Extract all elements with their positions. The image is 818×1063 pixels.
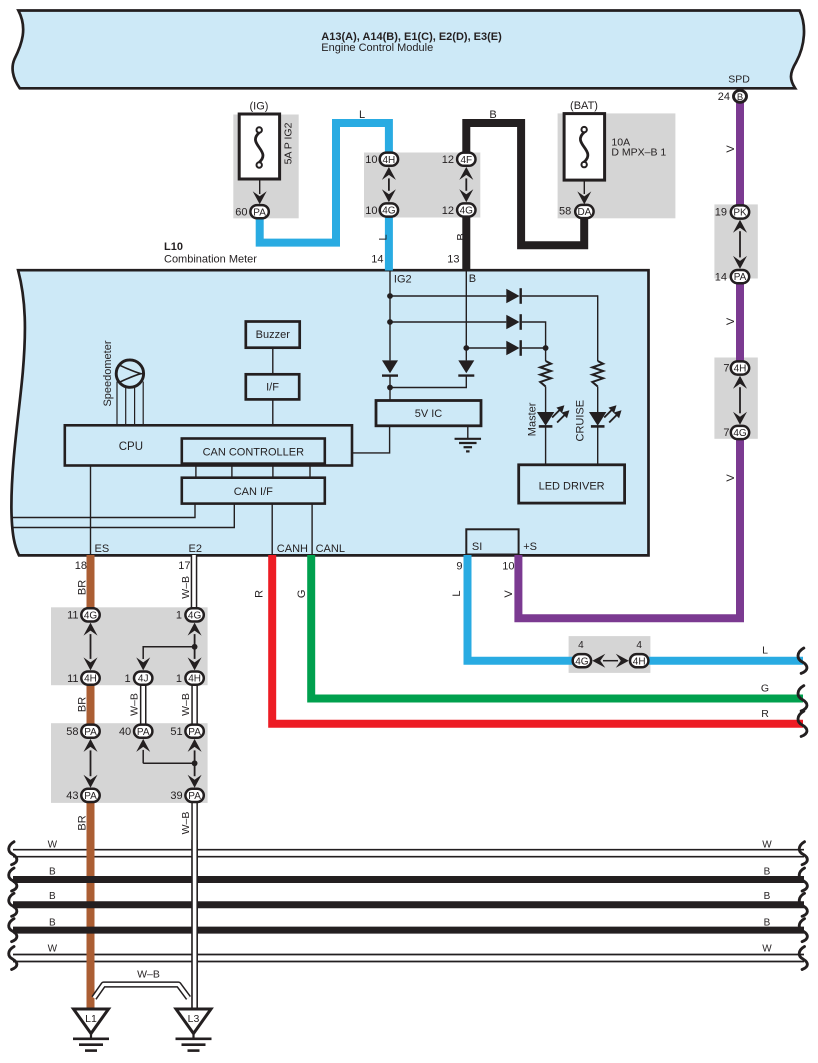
wire D4 output [389,376,391,401]
wire B band 3 [13,927,804,934]
ground L3 [176,1009,212,1051]
svg-text:V: V [725,317,737,325]
label G rotated [296,590,308,599]
svg-text:L: L [762,645,768,657]
wire BR pin18 to 4G [87,555,95,609]
label 11 a [67,610,78,622]
junction dot 51-39 branch [192,760,198,766]
connector PA pin58 [81,725,99,738]
svg-text:4G: 4G [84,611,98,622]
svg-text:L: L [359,109,365,121]
connector 4H inline [630,654,648,667]
svg-text:I/F: I/F [266,381,279,393]
arrows 11 4G-4H [84,623,98,671]
connector 4H pin11 [81,672,99,685]
svg-text:PA: PA [253,207,266,218]
arrows 10 4H-4G [382,167,396,202]
wire R CANH [272,555,803,724]
resistor CRUISE [592,361,603,387]
connector PA pin40 [134,725,152,738]
svg-text:L1: L1 [85,1013,97,1025]
break mark L right [798,648,807,673]
svg-text:17: 17 [178,560,190,572]
label 40 pin [119,726,131,738]
svg-text:9: 9 [456,560,462,572]
svg-text:12: 12 [442,205,454,217]
svg-text:R: R [254,590,266,598]
label 9 pin [456,560,462,572]
wire B internal vertical [465,271,467,360]
label Speedometer [102,340,114,406]
svg-text:CRUISE: CRUISE [575,400,587,442]
label 7 b [723,427,729,439]
svg-text:4G: 4G [575,656,589,667]
label V rotated 2 [725,317,737,325]
connector 4G pin1 [185,608,203,621]
svg-text:W: W [48,944,58,955]
svg-text:4H: 4H [633,656,646,667]
label L right end [762,645,768,657]
svg-text:B: B [469,273,476,285]
speedometer symbol [116,360,144,387]
label B band2 right [764,891,771,902]
svg-text:B: B [737,92,743,103]
svg-text:SPD: SPD [728,74,750,86]
svg-text:4F: 4F [460,155,472,166]
label BR rotated 2 [77,697,89,712]
wire L pin14 stub [385,217,393,271]
wire CAN I/F to left edge 2 [12,504,234,528]
svg-text:11: 11 [67,673,78,685]
arrow 40PA up [136,739,150,763]
connector PA pin14 [731,270,749,283]
combination meter label L10 [164,241,257,266]
connector 4J pin1 [134,672,152,685]
svg-text:W–B: W–B [129,693,141,716]
label +S [523,541,537,553]
label 4 right [636,640,642,651]
ECM module band A13/A14/E1/E2/E3 [13,11,804,89]
label 12 a [442,154,454,166]
label 4 left [578,640,584,651]
wire B pin13 stub [462,217,470,271]
svg-text:1: 1 [176,610,182,622]
arrows 12 4F-4G [459,167,473,202]
LED driver box [519,465,625,503]
label 10 a [365,154,377,166]
svg-text:PA: PA [188,791,201,802]
svg-text:L10: L10 [164,241,183,253]
connector 4G pin10 [380,203,398,216]
svg-text:5A P IG2: 5A P IG2 [283,122,295,164]
svg-text:Master: Master [527,402,539,436]
svg-text:51: 51 [170,726,182,738]
wire V 4G down to +S [518,440,740,619]
label 14 pin [371,253,383,265]
arrows 19PK-14PA [733,220,747,269]
label V rotated 4 [503,590,515,598]
label B band1 right [764,866,771,877]
diode D3 row3 [506,340,520,356]
label B band3 left [49,917,56,928]
wire CRUISE LED to LED driver [597,428,599,465]
svg-text:W: W [762,944,772,955]
diode D5 down (B to 5V) [458,360,474,375]
break B band2 [9,893,808,916]
label SPD [728,74,750,86]
wire Master LED to LED driver [545,428,547,465]
svg-text:B: B [456,233,468,240]
svg-text:SI: SI [472,541,482,553]
label BR rotated 3 [77,815,89,830]
connector PA pin43 [81,789,99,802]
node B label [469,273,476,285]
wire diode1 to CRUISE branch [522,295,598,361]
fuse block background (IG) [233,115,298,219]
label L rotated SI [451,590,463,596]
wires CAN controller to CAN I/F [196,464,310,478]
svg-text:G: G [296,590,308,599]
junction dot IG2 branch 1 [387,293,393,299]
label 13 pin [447,253,459,265]
svg-text:Engine Control Module: Engine Control Module [321,42,433,54]
wire diode2 to master node [522,322,546,348]
svg-text:10: 10 [365,154,377,166]
svg-text:PA: PA [84,791,97,802]
buzzer box [246,322,300,348]
wire W-B 4H to 51PA [191,685,198,725]
svg-text:W: W [48,839,58,850]
connector PA pin39 [185,789,203,802]
connector 4G pin12 [457,203,475,216]
svg-text:4G: 4G [188,611,202,622]
wire D5 output to D4 node [390,376,466,388]
label 58 b [66,726,78,738]
connector 4F pin12 [457,153,475,166]
svg-text:40: 40 [119,726,131,738]
wire diode row 2 [390,321,506,323]
wire B band 2 [13,901,804,908]
junction dot IG2 branch 2 [387,319,393,325]
connector 4H pin7 [731,361,749,374]
svg-text:+S: +S [523,541,537,553]
wire diode row 1 [390,295,506,297]
svg-text:14: 14 [371,253,383,265]
connector 4G inline [573,654,591,667]
svg-text:LED DRIVER: LED DRIVER [539,481,605,493]
svg-text:BR: BR [77,815,89,830]
svg-text:18: 18 [75,560,87,572]
fuse BAT (10A D MPX-B 1) [564,114,605,181]
svg-text:PA: PA [734,272,747,283]
label 1 a [176,610,182,622]
label ES [95,543,110,555]
wire buzzer to I/F [272,348,274,375]
label B band1 left [49,866,56,877]
label (IG) [250,101,269,113]
label R right end [761,708,769,720]
svg-text:4H: 4H [188,674,201,685]
svg-text:B: B [49,866,56,877]
label W-B rotated 2 [180,693,192,716]
svg-text:(IG): (IG) [250,101,269,113]
label R rotated [254,590,266,598]
connector 4G pin11 [81,608,99,621]
label Master [527,402,539,436]
svg-text:W–B: W–B [180,812,192,835]
svg-text:12: 12 [442,154,454,166]
label L rotated pin14 [377,234,389,240]
svg-text:R: R [761,708,769,720]
connector block 10/12 background [364,153,480,218]
label W band2 left [48,944,58,955]
label 24 pin [718,91,730,103]
svg-text:58: 58 [559,205,571,217]
svg-text:PA: PA [188,727,201,738]
svg-text:14: 14 [715,271,727,283]
label 1 c [176,673,182,685]
break mark G right [798,686,807,711]
label W band1 right [762,839,772,850]
CAN controller box [182,439,325,464]
diode D2 row2 [506,314,520,330]
break B band1 [9,868,808,891]
svg-text:10: 10 [365,205,377,217]
wire branch to 4J [136,647,194,671]
label 5A P IG2 [283,122,295,164]
node IG2 label [394,274,412,286]
label CANL [316,543,345,555]
wire W-B bridge [94,985,189,999]
wire W-B over bands [191,840,198,1010]
ground inside meter (5V IC) [455,426,482,452]
connector PK pin19 [731,205,749,218]
svg-text:24: 24 [718,91,730,103]
label W band2 right [762,944,772,955]
break W band1 [9,842,808,865]
svg-text:D MPX–B 1: D MPX–B 1 [611,147,666,159]
svg-text:W–B: W–B [180,576,192,599]
svg-text:W: W [762,839,772,850]
svg-text:5V IC: 5V IC [415,408,443,420]
svg-text:V: V [725,145,737,153]
connector 4H pin1 [185,672,203,685]
fuse IG (5A P IG2) [239,114,279,179]
svg-text:4G: 4G [382,206,396,217]
svg-text:CPU: CPU [119,441,143,453]
connector 4G pin7 [731,426,749,439]
svg-text:V: V [725,474,737,482]
wire CANL internal [311,504,313,555]
resistor Master [540,361,551,387]
junction dot B branch [463,345,469,351]
wire IG2 internal vertical [389,271,391,360]
svg-text:BR: BR [77,580,89,595]
svg-text:CANH: CANH [277,543,308,555]
wire B band 1 [13,876,804,883]
wires speedometer to CPU [117,382,143,426]
svg-text:13: 13 [447,253,459,265]
svg-text:(BAT): (BAT) [570,100,598,112]
connector block 19PK/14PA background [714,204,757,278]
svg-text:B: B [489,109,496,121]
label W-B rotated 1 [180,576,192,599]
svg-text:CAN CONTROLLER: CAN CONTROLLER [203,446,305,458]
label 19 pin [715,207,727,219]
label W-B rotated 4 [180,812,192,835]
arrow IG fuse output [253,179,267,204]
label 58 pin [559,205,571,217]
connector B pin24 (SPD) [734,90,747,103]
label B top [489,109,496,121]
wire W band 1 [13,850,804,857]
wire L from IG fuse to 4H [260,123,389,243]
svg-text:1: 1 [176,673,182,685]
wire W-B pin17 to 4G [191,555,198,609]
arrows 4G-4H horizontal [592,654,629,668]
wire BR 4H to PA [87,685,95,725]
svg-text:B: B [764,891,771,902]
svg-text:E2: E2 [189,543,202,555]
svg-text:4: 4 [578,640,584,651]
wire BR over bands [87,840,95,1010]
wire W-B 39PA to ground [191,802,198,1010]
svg-text:19: 19 [715,207,727,219]
svg-text:ES: ES [95,543,110,555]
wire master node to resistor [545,348,547,361]
wire L from SI pin9 [468,555,573,661]
label W band1 left [48,839,58,850]
wire B from BAT fuse to 4F [466,123,584,245]
svg-text:43: 43 [66,790,78,802]
label G right end [761,682,769,694]
wire W band 2 [13,955,804,962]
wire 5V IC to CPU [352,426,390,453]
wire ES internal [90,466,92,556]
label V rotated 1 [725,145,737,153]
label CANH [277,543,308,555]
diode D4 down (IG2 to 5V) [382,360,398,375]
arrows 1 4G-4H [188,623,202,671]
wire G CANL [311,555,803,699]
label V rotated 3 [725,474,737,482]
wire CAN I/F to left edge 1 [12,504,195,518]
ECM title text [321,31,502,54]
svg-text:W–B: W–B [180,693,192,716]
label 18 pin [75,560,87,572]
CPU box [65,425,352,465]
junction dot master node [543,345,549,351]
svg-text:10: 10 [502,560,514,572]
svg-text:4J: 4J [138,674,149,685]
label 60 pin [235,207,247,219]
arrow BAT fuse output [577,180,591,204]
label (BAT) [570,100,598,112]
connector 4H pin10 [380,153,398,166]
label E2 [189,543,202,555]
junction dot 4G-4H branch [192,644,198,650]
5V IC box [376,401,481,426]
svg-text:58: 58 [66,726,78,738]
label 1 b [124,673,130,685]
svg-text:CANL: CANL [316,543,345,555]
junction dot 5V feed [387,385,393,391]
svg-text:7: 7 [723,363,729,375]
svg-text:V: V [503,590,515,598]
connector block 11/1 4G-4H background [51,607,208,685]
svg-text:W–B: W–B [137,969,160,981]
label 14 pin right [715,271,727,283]
label BR rotated 1 [77,580,89,595]
connector block 4G/4H inline background [569,636,651,673]
svg-text:PA: PA [137,727,150,738]
connector DA (BAT fuse, pin58) [575,205,593,218]
wire V SPD drop [736,103,744,206]
arrows 58PA-43PA [84,739,98,788]
connector PA (IG fuse, pin60) [250,205,268,218]
wire diode row 3 [466,347,506,349]
wire diode3 to master node [522,347,546,349]
svg-text:1: 1 [124,673,130,685]
connector block 7 4H/4G background [714,358,757,439]
label 7 a [723,363,729,375]
svg-text:Speedometer: Speedometer [102,340,114,406]
ground L1 [73,1009,109,1051]
svg-text:B: B [49,891,56,902]
wire I/F to CAN controller [272,399,274,438]
connector PA pin51 [185,725,203,738]
SI box [466,529,518,554]
label B rotated pin13 [456,233,468,240]
wire resistor to CRUISE LED [597,387,599,413]
svg-text:L: L [451,590,463,596]
svg-text:7: 7 [723,427,729,439]
CPU label [119,441,143,453]
svg-text:B: B [764,917,771,928]
svg-text:PK: PK [733,208,747,219]
connector block PA background [51,723,208,803]
svg-text:L: L [377,234,389,240]
svg-text:Combination Meter: Combination Meter [164,254,257,266]
svg-text:4G: 4G [460,206,474,217]
label 12 b [442,205,454,217]
svg-text:CAN I/F: CAN I/F [234,486,273,498]
label B band2 left [49,891,56,902]
label 43 pin [66,790,78,802]
label 11 b [67,673,78,685]
I/F box [246,374,299,399]
label 39 pin [170,790,182,802]
svg-text:B: B [49,917,56,928]
label W-B rotated 3 [129,693,141,716]
break mark R right [798,711,807,736]
label L top [359,109,365,121]
LED CRUISE [589,405,622,426]
label 17 pin [178,560,190,572]
label CRUISE [575,400,587,442]
svg-text:PA: PA [84,727,97,738]
svg-text:B: B [764,866,771,877]
arrows 51PA-39PA [188,739,202,788]
wire L to right edge [649,657,803,665]
label W-B bridge [137,969,160,981]
svg-text:Buzzer: Buzzer [256,329,291,341]
arrows 7 4H-4G [733,376,747,425]
svg-text:L3: L3 [188,1013,200,1025]
svg-text:4H: 4H [383,155,396,166]
svg-text:4G: 4G [733,428,747,439]
svg-text:DA: DA [577,207,591,218]
